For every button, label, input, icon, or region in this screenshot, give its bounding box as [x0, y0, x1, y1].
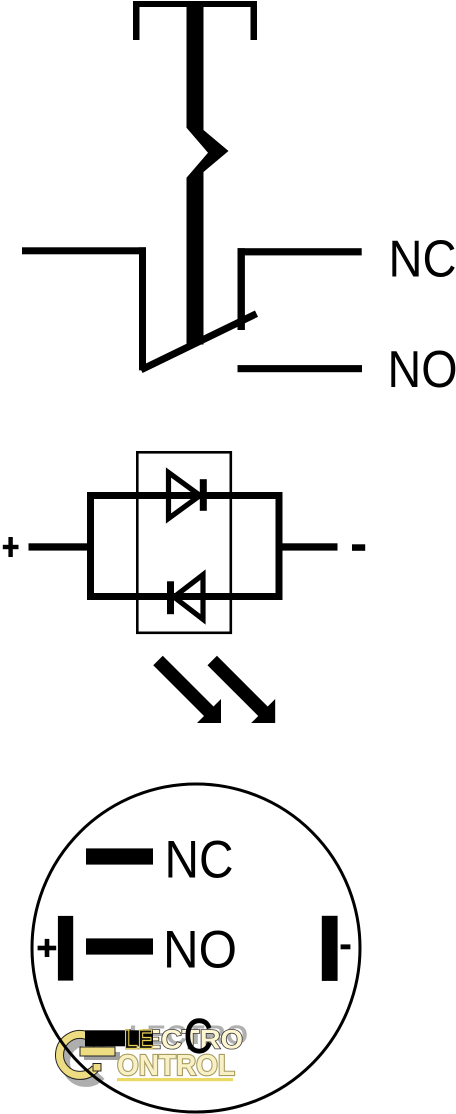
arrow 2: [212, 661, 275, 724]
svg-text:ONTROL: ONTROL: [117, 1050, 235, 1082]
terminal + bar: [58, 916, 73, 981]
logo e tail: [93, 1064, 101, 1072]
wire: NO horizontal: [238, 365, 363, 372]
wire: - lead: [276, 543, 338, 550]
terminal NO bar: [86, 938, 153, 954]
terminal NC bar: [86, 848, 153, 864]
LED box: [137, 452, 231, 633]
svg-text:C: C: [184, 1010, 213, 1063]
logo big e: [60, 1034, 99, 1075]
wire: bottom branch: [87, 593, 283, 600]
diode D1 (top, pointing right): [169, 473, 201, 519]
wire: + lead: [29, 543, 95, 550]
svg-text:LE: LE: [124, 1025, 153, 1055]
terminal C bar: [85, 1030, 153, 1046]
actuator right tick: [251, 1, 258, 40]
housing circle: [32, 784, 360, 1112]
plunger stem with zigzag: [187, 1, 229, 345]
actuator left tick: [133, 1, 140, 40]
logo big e outline: [60, 1034, 99, 1075]
svg-text:NO: NO: [163, 921, 237, 980]
wire: left common lead: [22, 247, 146, 254]
terminal - bar: [322, 916, 338, 981]
arrow 1: [158, 661, 221, 724]
logo shadow: [66, 1041, 120, 1082]
actuator top bar: [133, 1, 257, 7]
wire: right vertical junction: [276, 492, 283, 600]
diode D2 (bottom, pointing left): [174, 575, 203, 620]
svg-text:NC: NC: [389, 231, 456, 289]
diode D2 cathode bar: [167, 581, 174, 614]
minus sign: [352, 544, 365, 551]
wire: left vertical junction: [87, 492, 94, 600]
switch blade: [141, 314, 257, 370]
wire: NC vertical leg: [238, 248, 245, 330]
svg-text:NC: NC: [165, 831, 234, 890]
diode D1 cathode bar: [200, 479, 207, 511]
plus sign: [3, 545, 19, 549]
logo e crossbar: [80, 1047, 115, 1056]
logo underline: [117, 1078, 233, 1081]
minus sign in circle: [341, 944, 351, 949]
plus sign in circle: [38, 946, 57, 951]
svg-text:NO: NO: [388, 341, 456, 399]
wire: left vertical leg: [139, 247, 146, 370]
wire: top branch: [87, 492, 283, 499]
wire: NC horizontal: [238, 248, 362, 255]
